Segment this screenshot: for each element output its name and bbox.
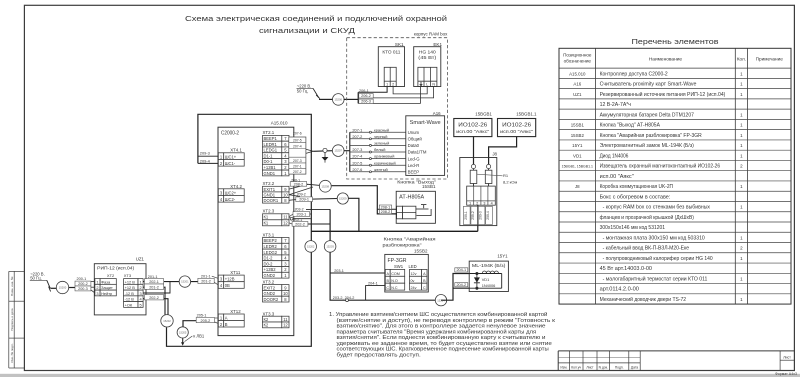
svg-text:XT3.2: XT3.2	[263, 280, 275, 285]
wire 202 pair UZ1 down-route	[143, 287, 168, 316]
svg-text:+12 В: +12 В	[125, 279, 136, 284]
parts list table grid	[559, 48, 791, 304]
wire 202-2 to K1	[289, 223, 330, 224]
svg-text:В: В	[225, 322, 228, 327]
svg-text:N док.: N док.	[599, 365, 608, 369]
svg-text:BEEP1: BEEP1	[264, 136, 278, 141]
svg-text:ИО102-26: ИО102-26	[502, 122, 531, 128]
svg-text:Наименование: Наименование	[649, 57, 683, 63]
svg-text:206-1: 206-1	[359, 89, 369, 93]
svg-text:UZ1: UZ1	[573, 92, 582, 97]
svg-text:FP-3GR: FP-3GR	[388, 258, 407, 264]
svg-text:+12В: +12В	[225, 277, 235, 282]
sensor 15BGB1.1 IO102-26	[498, 112, 538, 137]
wire sensor2 to J8	[489, 137, 517, 165]
svg-text:11: 11	[283, 317, 288, 322]
svg-text:Data0: Data0	[408, 143, 420, 148]
svg-text:Нейтр: Нейтр	[101, 291, 112, 296]
svg-text:207-6: 207-6	[352, 167, 362, 172]
terminal UZ1 XT3	[124, 279, 138, 285]
svg-text:Кнопка "Аварийная разблокировк: Кнопка "Аварийная разблокировка" FP-3GR	[600, 132, 703, 139]
svg-text:C: C	[386, 286, 389, 290]
button 15SB2 label	[383, 236, 436, 254]
svg-text:Диод 1N4006: Диод 1N4006	[600, 153, 629, 159]
svg-text:К2: К2	[264, 323, 269, 328]
svg-text:N.C: N.C	[391, 286, 398, 290]
wire sensor1 to J8	[473, 137, 475, 165]
power source ~220V 50Hz feed (top)	[297, 83, 320, 98]
wire label 200-2	[75, 281, 91, 286]
enclosure korpus RAM box (dashed)	[347, 38, 448, 179]
svg-text:Примечание: Примечание	[756, 57, 784, 62]
cable marker 15209	[337, 193, 348, 204]
svg-text:209-1: 209-1	[299, 198, 309, 202]
svg-text:8,2 кОм: 8,2 кОм	[503, 179, 518, 184]
junction box J8	[460, 152, 498, 226]
cable marker 15208	[319, 180, 331, 192]
svg-text:+12 В: +12 В	[125, 285, 136, 290]
svg-text:15SB1: 15SB1	[422, 184, 436, 189]
svg-text:15SB2: 15SB2	[571, 133, 585, 138]
node diode bottom	[476, 287, 478, 289]
wire 201 pair UZ1 to XT11	[143, 276, 218, 293]
svg-text:А15.010: А15.010	[569, 71, 586, 76]
terminal UZ1 XT2	[95, 279, 100, 285]
svg-text:BEEP2: BEEP2	[264, 238, 278, 243]
wire label 202-2 at UZ1	[144, 295, 163, 300]
svg-text:оранжевый: оранжевый	[374, 154, 394, 159]
svg-text:0В: 0В	[225, 283, 230, 288]
wire label group 207-x at controller	[289, 132, 306, 175]
reader A16 Smart-Wave	[406, 111, 445, 175]
svg-text:209-1: 209-1	[464, 211, 468, 220]
svg-text:200-2: 200-2	[78, 282, 88, 286]
svg-text:203-1: 203-1	[296, 213, 306, 217]
svg-text:202-2: 202-2	[295, 222, 305, 226]
svg-text:1: 1	[96, 279, 98, 284]
svg-text:201-1: 201-1	[201, 274, 211, 278]
wire label 202-2 at controller	[292, 222, 308, 227]
thermostat SK1 KTO 011	[378, 42, 404, 87]
svg-text:12: 12	[283, 221, 288, 226]
svg-text:207-2: 207-2	[293, 170, 302, 174]
cable marker 15201	[179, 276, 190, 287]
svg-text:Схема электрическая соединений: Схема электрическая соединений и подключ…	[185, 15, 447, 23]
svg-text:24v: 24v	[411, 286, 417, 290]
svg-text:красный: красный	[374, 127, 389, 132]
svg-text:D1-2: D1-2	[264, 256, 274, 261]
svg-text:Электромагнитный замок ML-194К: Электромагнитный замок ML-194К (Б/з)	[600, 142, 695, 149]
svg-text:3: 3	[139, 291, 141, 296]
svg-text:К1: К1	[264, 215, 269, 220]
svg-text:XT2.1: XT2.1	[263, 130, 275, 135]
svg-text:15BGB1, 15BGB1.1: 15BGB1, 15BGB1.1	[562, 165, 593, 169]
wire label 201-2 at XT11	[198, 278, 214, 283]
svg-text:С2000-2: С2000-2	[221, 131, 239, 137]
svg-text:сигнализации и СКУД: сигнализации и СКУД	[259, 28, 355, 35]
svg-text:201-2: 201-2	[149, 286, 159, 290]
svg-text:J8: J8	[492, 152, 497, 157]
svg-text:коричневый: коричневый	[374, 160, 396, 165]
wire label 206-2	[359, 94, 373, 98]
svg-text:15SB1: 15SB1	[571, 123, 585, 128]
ground symbol EK1 PE terminal	[419, 82, 422, 86]
node diode top	[476, 272, 478, 274]
svg-text:EXIT1: EXIT1	[264, 187, 276, 192]
svg-text:15Y1: 15Y1	[572, 143, 583, 148]
svg-text:204-1: 204-1	[368, 281, 378, 285]
terminal LED of FP-3GR	[410, 269, 422, 276]
svg-text:208-2: 208-2	[381, 210, 391, 214]
svg-text:исп.00 "Аякс": исп.00 "Аякс"	[456, 129, 489, 134]
diode VD1 1N4006	[474, 274, 495, 289]
svg-text:- кабельный ввод ВК-П-ВЗЛ-М20-: - кабельный ввод ВК-П-ВЗЛ-М20-Еке	[603, 245, 690, 252]
svg-text:LED: LED	[409, 264, 417, 269]
sensor 15BGB1 IO102-26	[454, 112, 493, 137]
node sensor1 tap	[471, 164, 475, 168]
svg-text:Считыватель proximity карт Sma: Считыватель proximity карт Smart-Wave	[600, 82, 697, 88]
svg-text:15202: 15202	[307, 245, 315, 249]
svg-text:206-2: 206-2	[361, 94, 371, 98]
resistor R1 label	[477, 173, 518, 184]
svg-text:Формат А4х3: Формат А4х3	[775, 372, 797, 376]
svg-text:Взам. инв. №: Взам. инв. №	[10, 276, 14, 296]
notes	[329, 311, 556, 358]
svg-text:1: 1	[386, 83, 388, 87]
wire stubs XT4.1 to loop	[198, 156, 218, 163]
svg-text:+12В2: +12В2	[264, 267, 277, 272]
svg-text:3: 3	[483, 202, 485, 206]
svg-text:к ЛВ1: к ЛВ1	[193, 334, 205, 339]
svg-text:207-3: 207-3	[293, 159, 302, 163]
svg-text:201-2: 201-2	[201, 280, 211, 284]
svg-text:XT4.2: XT4.2	[230, 184, 242, 189]
svg-text:XT3: XT3	[124, 273, 132, 278]
svg-text:207-4: 207-4	[293, 144, 302, 148]
button 15SB1 AT-H805A	[396, 191, 435, 223]
svg-text:Led-R: Led-R	[408, 163, 420, 168]
svg-text:L: L	[426, 83, 428, 87]
svg-text:0v: 0v	[411, 279, 415, 283]
svg-text:205-1: 205-1	[197, 314, 207, 318]
svg-text:белый: белый	[374, 147, 385, 152]
svg-text:XT2.2: XT2.2	[263, 181, 275, 186]
cable marker 15206	[333, 94, 345, 106]
svg-text:209-3: 209-3	[479, 211, 483, 220]
svg-text:N: N	[432, 83, 435, 87]
power source ~220V 50Hz feed (bottom)	[30, 272, 51, 292]
wire label 209-1 at controller	[296, 197, 313, 202]
svg-text:15207: 15207	[334, 149, 342, 153]
svg-text:15209: 15209	[339, 197, 347, 201]
svg-text:+ОК: +ОК	[125, 302, 133, 307]
wire label 205-2	[196, 318, 214, 323]
svg-text:А16: А16	[433, 111, 441, 116]
svg-text:КТО 011: КТО 011	[382, 49, 400, 55]
wire labels 209-1..209-4 vertical at J8	[464, 206, 493, 224]
svg-text:А16: А16	[573, 82, 581, 87]
svg-text:15BGB1.1: 15BGB1.1	[516, 112, 537, 117]
svg-text:черный: черный	[374, 134, 387, 139]
svg-text:Общий: Общий	[408, 137, 423, 142]
svg-text:R1: R1	[503, 173, 509, 178]
svg-text:Кнопка "Выход" АТ-Н805А: Кнопка "Выход" АТ-Н805А	[600, 123, 661, 129]
svg-text:GND1: GND1	[264, 171, 276, 176]
svg-text:Перечень элементов: Перечень элементов	[632, 39, 719, 46]
svg-text:15BGB1: 15BGB1	[475, 112, 492, 117]
resistor R1 8.2k	[485, 170, 492, 183]
lock ML-194K box	[469, 261, 508, 291]
svg-text:Подп.: Подп.	[615, 365, 624, 369]
svg-text:12v: 12v	[411, 272, 417, 276]
svg-text:арт.0114.2.0-00: арт.0114.2.0-00	[600, 287, 640, 293]
svg-text:207-5: 207-5	[352, 160, 362, 165]
svg-text:ШС2+: ШС2+	[225, 190, 237, 195]
svg-text:Коробка коммутационная UK-2П: Коробка коммутационная UK-2П	[600, 184, 674, 190]
svg-text:АТ-Н805А: АТ-Н805А	[399, 195, 425, 201]
terminal strip J8	[467, 186, 496, 206]
svg-text:Изм.: Изм.	[560, 365, 567, 369]
svg-text:DOOR2: DOOR2	[264, 297, 279, 302]
svg-text:А15.010: А15.010	[271, 120, 288, 125]
svg-text:207-3: 207-3	[352, 147, 362, 152]
svg-text:10: 10	[283, 291, 288, 296]
svg-text:корпус RAM box: корпус RAM box	[414, 31, 448, 36]
svg-text:15203: 15203	[326, 245, 334, 249]
svg-text:203-2, 204-2: 203-2, 204-2	[333, 296, 355, 300]
svg-text:205-2: 205-2	[201, 319, 211, 323]
left margin inventory boxes	[9, 271, 25, 368]
cable marker 15202	[161, 315, 173, 327]
wire label 204-2 at lock	[455, 283, 468, 287]
wire 204-1 from FP-3GR NC	[366, 286, 386, 301]
svg-text:2: 2	[476, 202, 478, 206]
svg-text:209-3: 209-3	[200, 151, 210, 156]
svg-text:Фаза: Фаза	[101, 279, 111, 284]
svg-text:2: 2	[139, 285, 141, 290]
svg-text:2: 2	[96, 285, 98, 290]
wire 203 pair down to button FP-3GR	[330, 209, 441, 300]
wire 205 to LV1 with arrow	[181, 336, 192, 346]
svg-text:- малогабаритный термостат сер: - малогабаритный термостат серии КТО 011	[603, 275, 708, 282]
resistor in loop	[470, 170, 477, 183]
svg-text:Led-G: Led-G	[408, 156, 421, 161]
svg-text:207-6: 207-6	[293, 132, 302, 136]
svg-text:Data1/TM: Data1/TM	[408, 150, 427, 155]
wire 203-1 into FP-3GR COM	[330, 272, 385, 274]
wire 203-2 from K1	[306, 208, 330, 210]
svg-text:12 В-2А-7А*ч: 12 В-2А-7А*ч	[600, 102, 632, 108]
svg-text:15202: 15202	[163, 319, 171, 323]
wire label 208-2 at button	[379, 210, 391, 214]
svg-text:Кол.уч: Кол.уч	[571, 365, 581, 369]
wire 208 pair XT2.2 to button	[289, 184, 397, 214]
svg-text:15Y1: 15Y1	[497, 254, 508, 259]
svg-text:- монтажная плата 300х150 мм к: - монтажная плата 300х150 мм код 503310	[603, 235, 705, 241]
svg-text:- полупроводниковый калорифер: - полупроводниковый калорифер серии HG 1…	[603, 255, 713, 262]
svg-text:15SB2: 15SB2	[414, 248, 428, 253]
wire 200 feed	[50, 287, 56, 289]
svg-text:Позиционное: Позиционное	[563, 53, 592, 58]
svg-text:исп.00 "Аякс": исп.00 "Аякс"	[600, 174, 634, 180]
lock coil	[469, 271, 502, 288]
terminal SW1 of FP-3GR	[385, 269, 390, 276]
svg-text:202-2: 202-2	[149, 296, 159, 300]
svg-text:D1-1: D1-1	[264, 153, 274, 158]
svg-text:Дата: Дата	[631, 365, 638, 369]
svg-text:XT12: XT12	[230, 309, 241, 314]
svg-text:15205: 15205	[179, 331, 187, 335]
svg-text:ИО102-26: ИО102-26	[458, 122, 487, 128]
cable marker 15203	[324, 241, 336, 253]
svg-text:209-4: 209-4	[486, 211, 490, 220]
wire 200 to UZ1	[69, 282, 95, 293]
svg-text:VD1: VD1	[573, 153, 582, 158]
svg-text:А: А	[225, 315, 228, 320]
svg-text:204-1: 204-1	[456, 268, 466, 272]
svg-text:207-4: 207-4	[352, 154, 363, 159]
page bottom edge shading	[0, 374, 800, 377]
svg-text:Кол.: Кол.	[737, 57, 746, 62]
svg-text:207-1: 207-1	[293, 165, 302, 169]
wire label 208-1 at button	[379, 205, 391, 209]
svg-text:LEDR1: LEDR1	[264, 142, 278, 147]
svg-text:J8: J8	[575, 184, 580, 189]
wire label 208-2 at controller	[290, 182, 307, 187]
svg-text:К2: К2	[264, 317, 269, 322]
svg-text:208-1: 208-1	[381, 205, 391, 209]
svg-text:2: 2	[392, 83, 394, 87]
power supply UZ1 RIP-12	[94, 256, 146, 315]
svg-text:Бокс с обогревом в составе:: Бокс с обогревом в составе:	[600, 194, 671, 200]
svg-text:LEDR2: LEDR2	[264, 244, 278, 249]
svg-text:- корпус RAM box со стенками б: - корпус RAM box со стенками без выбивны…	[603, 205, 711, 211]
svg-text:GND1: GND1	[264, 192, 276, 197]
svg-text:207-1: 207-1	[352, 127, 362, 132]
svg-text:4: 4	[491, 202, 493, 206]
svg-text:200-1: 200-1	[77, 277, 87, 281]
svg-text:1: 1	[139, 279, 141, 284]
svg-text:DOOR1: DOOR1	[264, 198, 279, 203]
svg-text:202-1: 202-1	[149, 280, 159, 284]
svg-text:Аккумуляторная батарея Delta D: Аккумуляторная батарея Delta DTM1207	[600, 112, 695, 118]
svg-text:209-2: 209-2	[471, 211, 475, 220]
svg-text:15201: 15201	[181, 280, 189, 284]
svg-text:209-4: 209-4	[200, 158, 211, 163]
heater EK1 HG 140 45W	[414, 42, 443, 87]
svg-text:5: 5	[139, 302, 141, 307]
svg-text:Лист: Лист	[586, 365, 594, 369]
svg-text:ШС1-: ШС1-	[225, 161, 236, 166]
svg-text:К1: К1	[264, 221, 269, 226]
reader A16 pin names	[408, 130, 427, 175]
wire labels 207-x at reader with wire colors	[352, 127, 395, 173]
cable marker 15204	[435, 295, 446, 306]
button 15SB2 FP-3GR	[385, 254, 429, 292]
svg-text:ШС1+: ШС1+	[225, 154, 237, 159]
wire 209 pair XT2.2 to junction box	[289, 195, 478, 232]
svg-text:50 Гц.: 50 Гц.	[30, 276, 42, 281]
wire 207 ladder to reader A16	[344, 132, 406, 172]
svg-text:209-2: 209-2	[297, 192, 306, 196]
cable marker 15207	[332, 145, 344, 157]
svg-text:Unum: Unum	[408, 130, 420, 135]
svg-text:Механический доводчик двери TS: Механический доводчик двери TS-72	[600, 296, 687, 303]
wire bundle 207 merge	[306, 149, 333, 153]
svg-text:GND2: GND2	[264, 291, 276, 296]
wire 203-1 from K1	[289, 214, 311, 217]
svg-text:UZ1: UZ1	[136, 256, 145, 261]
parts list header	[563, 53, 783, 64]
ground symbol on reader cable shield	[322, 148, 329, 162]
svg-text:50 Гц.: 50 Гц.	[297, 89, 309, 94]
svg-text:исп.00 "Аякс": исп.00 "Аякс"	[500, 129, 533, 134]
svg-text:203-1: 203-1	[334, 269, 344, 273]
svg-text:XT11: XT11	[230, 270, 241, 275]
svg-text:200-3: 200-3	[78, 287, 88, 291]
wire 206 feed	[319, 98, 333, 100]
svg-text:15206: 15206	[335, 98, 343, 102]
svg-text:206-3: 206-3	[361, 100, 371, 104]
svg-text:РИП-12 (исп.04): РИП-12 (исп.04)	[97, 265, 134, 270]
svg-text:11: 11	[283, 215, 288, 220]
wire 206 fan to RAM box	[344, 87, 434, 104]
controller C2000-2 box	[218, 127, 294, 335]
svg-text:обозначение: обозначение	[564, 59, 592, 64]
svg-text:зеленый: зеленый	[374, 141, 389, 146]
svg-text:3: 3	[96, 291, 98, 296]
svg-text:VD1: VD1	[482, 277, 490, 282]
svg-text:Контроллер доступа С2000-2: Контроллер доступа С2000-2	[600, 71, 668, 77]
svg-text:207-2: 207-2	[352, 134, 362, 139]
svg-text:Защит: Защит	[101, 285, 113, 290]
svg-text:Резервированный источник питан: Резервированный источник питания РИП-12 …	[600, 91, 726, 98]
wire label 203-1 at controller	[293, 212, 310, 217]
svg-text:ШС2-: ШС2-	[225, 197, 236, 202]
svg-text:SW1: SW1	[394, 264, 404, 269]
wire 205 pair XT12 RS-485	[183, 318, 218, 327]
svg-text:C: C	[423, 286, 426, 290]
svg-text:LEDG1: LEDG1	[264, 148, 278, 153]
svg-text:45 Вт арт.14003.0-00: 45 Вт арт.14003.0-00	[600, 266, 653, 272]
svg-text:D0-1: D0-1	[264, 159, 274, 164]
wire label 204-1 at lock	[455, 268, 468, 272]
svg-text:N.O: N.O	[391, 279, 398, 283]
wire 204 pair up to lock	[441, 274, 469, 301]
cable marker 15205	[177, 327, 188, 338]
svg-text:15200: 15200	[59, 286, 67, 290]
wire 202-1 to K1	[289, 217, 311, 219]
svg-text:HG 140: HG 140	[419, 49, 436, 55]
svg-text:XT2: XT2	[107, 273, 115, 278]
svg-text:XT3.1: XT3.1	[263, 233, 275, 238]
svg-text:203-2: 203-2	[295, 208, 304, 212]
svg-text:12: 12	[283, 323, 288, 328]
cable marker 15202 on riser	[305, 241, 317, 253]
svg-text:1N4006: 1N4006	[482, 283, 496, 288]
wire label 206-3	[359, 99, 373, 103]
svg-text:Извещатель охранный магнитокон: Извещатель охранный магнитоконтактный ИО…	[600, 163, 721, 170]
svg-text:XT2.3: XT2.3	[263, 208, 275, 213]
svg-text:Подпись и дата: Подпись и дата	[10, 308, 14, 331]
svg-text:-12 В: -12 В	[125, 291, 135, 296]
svg-text:Кнопка "Аварийная: Кнопка "Аварийная	[384, 236, 436, 243]
svg-text:-12 В: -12 В	[125, 297, 135, 302]
wire label 201-2 at UZ1	[144, 284, 163, 289]
svg-text:15208: 15208	[322, 184, 330, 188]
svg-text:XT4.1: XT4.1	[230, 147, 242, 152]
svg-text:EXIT2: EXIT2	[264, 285, 276, 290]
